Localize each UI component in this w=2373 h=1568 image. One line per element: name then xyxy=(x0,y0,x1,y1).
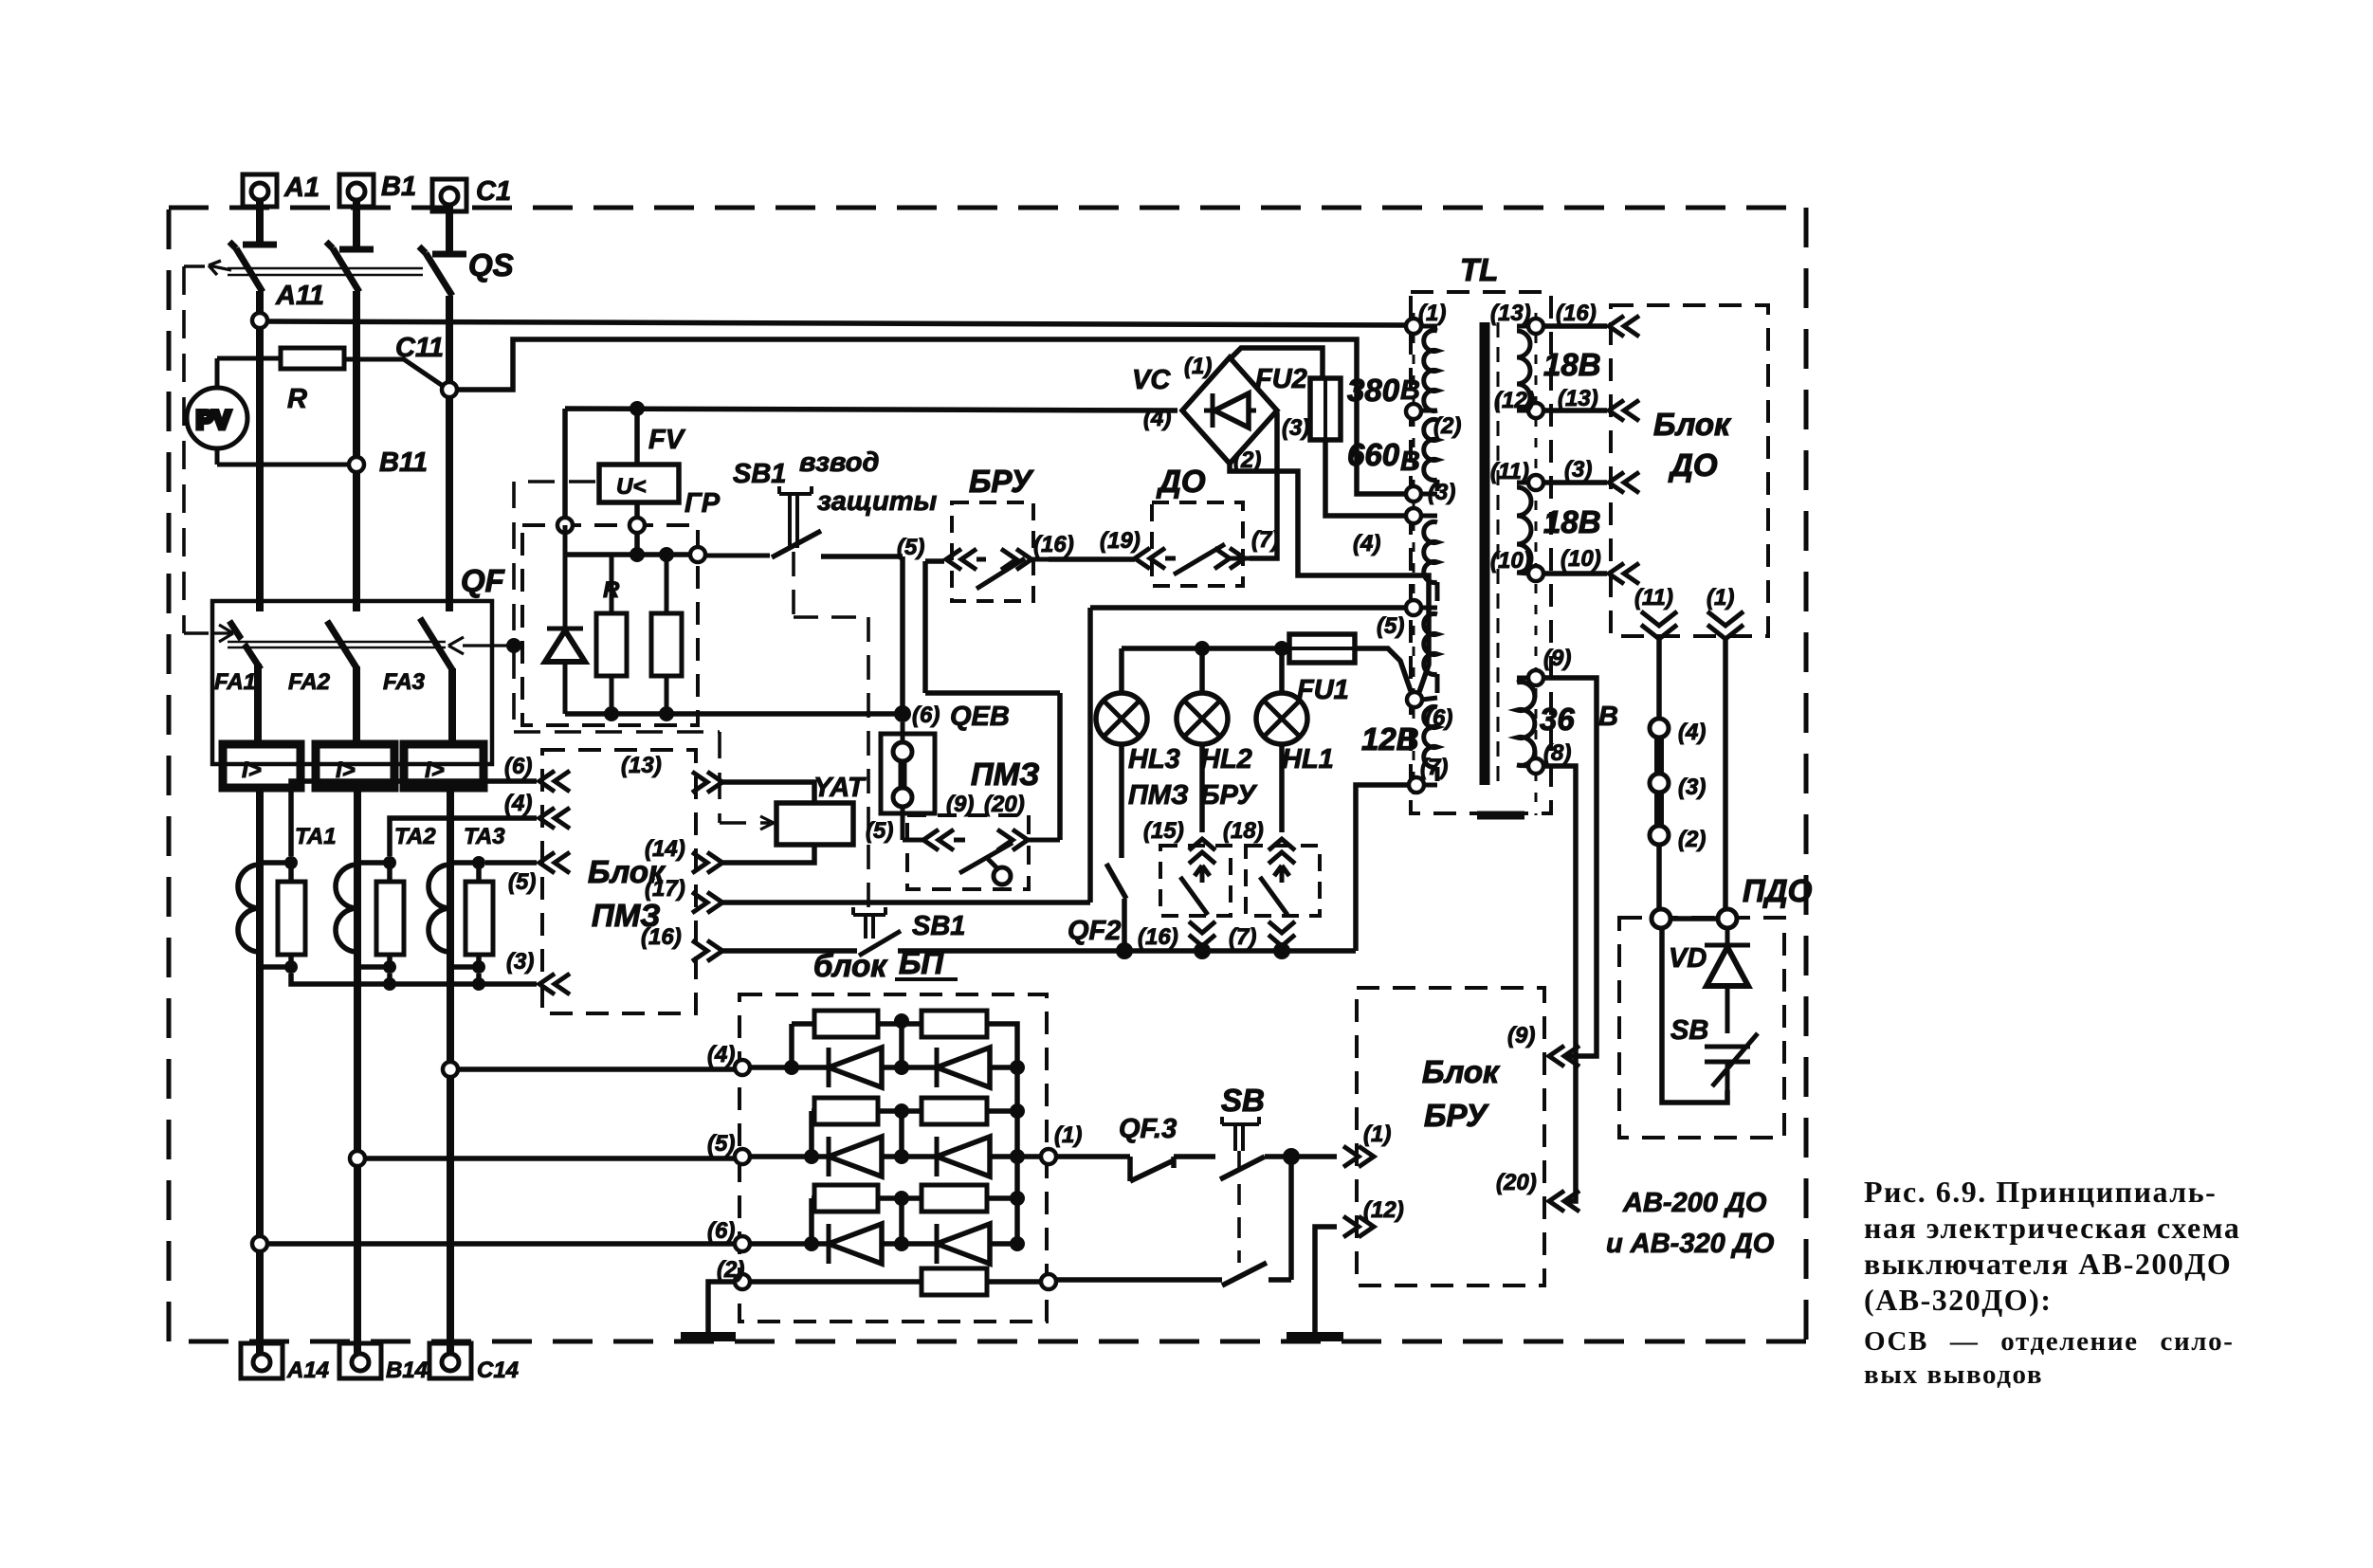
svg-text:(4): (4) xyxy=(1143,406,1171,431)
wire bridge(3) to DO contact xyxy=(1250,412,1277,558)
svg-text:(7): (7) xyxy=(1420,755,1448,780)
wire chain to PDO xyxy=(1656,845,1662,910)
svg-text:FA1: FA1 xyxy=(214,669,256,695)
svg-text:(5): (5) xyxy=(1377,613,1404,639)
wire FA2 blade to I> xyxy=(353,666,360,744)
wire FA1 blade to I> xyxy=(254,664,262,744)
svg-text:(6): (6) xyxy=(1425,705,1452,731)
wire BP (2) to ground xyxy=(708,1282,735,1335)
breaker aux contact QF.3 xyxy=(1056,1157,1215,1181)
svg-text:SB1: SB1 xyxy=(912,911,965,941)
TL secondary winding 18V (11)-(10) xyxy=(1517,483,1531,574)
block PMZ dashed box xyxy=(542,750,696,1013)
TL secondary winding 36V (9)-(8) xyxy=(1517,678,1535,766)
current transformer TA3 xyxy=(429,863,493,967)
terminal (9) TL xyxy=(1528,670,1543,685)
svg-text:(8): (8) xyxy=(1543,740,1571,766)
overcurrent release I> FA1 xyxy=(223,744,301,788)
wire PMZ contact (20) to BRU (5) xyxy=(925,561,1060,840)
node dots on GR bottom wire xyxy=(604,706,619,721)
terminal (10) TL xyxy=(1528,566,1543,581)
wire (13) to DO (16) xyxy=(1543,323,1607,329)
disconnector QS blade phase B xyxy=(326,242,359,292)
BP row3 diode b xyxy=(937,1224,1017,1264)
connector arrow (4) xyxy=(539,808,570,829)
svg-text:FU2: FU2 xyxy=(1255,364,1307,394)
connector arrow (11) down xyxy=(1641,611,1677,639)
lamp HL1 xyxy=(1256,648,1307,832)
svg-text:HL2: HL2 xyxy=(1200,744,1252,775)
svg-text:(16): (16) xyxy=(641,924,682,950)
terminal (4) TL xyxy=(1406,508,1421,523)
connector arrow (1) BRU xyxy=(1343,1146,1374,1167)
connector arrow (9) BRU xyxy=(1549,1046,1579,1067)
QF blade FA1 xyxy=(229,621,261,669)
connector bar 4-3 xyxy=(1654,738,1664,774)
terminal (6) TL xyxy=(1407,692,1422,707)
svg-text:БП: БП xyxy=(899,945,944,980)
svg-text:(15): (15) xyxy=(1143,818,1184,844)
wire ground to BRU (12) xyxy=(1315,1227,1337,1335)
connector arrow (10) DO xyxy=(1609,563,1639,584)
terminal A1 xyxy=(243,174,277,245)
svg-text:VD: VD xyxy=(1669,943,1707,974)
lamps supply bus from FU1 xyxy=(1122,648,1411,691)
terminal (2) TL xyxy=(1406,404,1421,419)
wire (17) to TL tap (5) xyxy=(722,608,1406,903)
svg-text:B14: B14 xyxy=(386,1358,428,1383)
svg-text:R: R xyxy=(603,577,620,603)
connector arrow (14) xyxy=(692,852,722,873)
svg-text:A1: A1 xyxy=(283,173,319,203)
svg-text:(2): (2) xyxy=(717,1257,744,1283)
wire (12) to DO (13) xyxy=(1543,408,1607,413)
svg-text:и АВ-320 ДО: и АВ-320 ДО xyxy=(1606,1229,1775,1259)
node C11 xyxy=(442,382,457,397)
svg-text:Блок: Блок xyxy=(1653,407,1732,442)
svg-text:(1): (1) xyxy=(1054,1122,1082,1148)
connector arrow (5) xyxy=(539,852,570,873)
SB lower contact xyxy=(1056,1263,1291,1285)
lamp HL3 xyxy=(1096,648,1147,858)
connector arrow (3) DO xyxy=(1609,472,1639,493)
svg-text:TA1: TA1 xyxy=(295,824,337,849)
wire bus A (QS to QF) xyxy=(256,291,264,611)
svg-text:ДО: ДО xyxy=(1668,447,1718,483)
svg-text:БРУ: БРУ xyxy=(969,464,1034,499)
svg-text:БРУ: БРУ xyxy=(1424,1098,1489,1133)
BP row1 right riser xyxy=(987,1024,1017,1067)
lamp HL2 xyxy=(1177,648,1228,832)
disconnector QS blade phase A xyxy=(229,242,263,292)
GR block dashed box xyxy=(522,525,698,725)
wire FA3 blade to I> xyxy=(448,668,456,744)
svg-text:(3): (3) xyxy=(1282,415,1309,441)
svg-text:(20): (20) xyxy=(984,792,1025,817)
common wire TA secondaries to PMZ (3) xyxy=(291,974,537,984)
svg-text:I>: I> xyxy=(242,757,262,783)
BP terminal (5) xyxy=(735,1149,750,1164)
diode VD in GR block xyxy=(545,525,585,714)
TL primary winding section 2-3 xyxy=(1421,419,1437,494)
wire TA2 secondary to PMZ (4) xyxy=(390,818,537,856)
contact box (15)-(16) dashed xyxy=(1160,846,1231,916)
svg-text:(9): (9) xyxy=(1507,1023,1535,1048)
svg-text:660: 660 xyxy=(1347,437,1400,472)
BP bottom row resistor xyxy=(750,1268,1041,1295)
wire (16) to bottom bus xyxy=(722,948,857,954)
disconnector QS blade phase C xyxy=(419,246,452,296)
svg-text:(1): (1) xyxy=(1184,354,1212,379)
pushbutton SB1 (upper contact) xyxy=(705,531,903,706)
svg-text:QF2: QF2 xyxy=(1068,916,1121,946)
trip coil YAT xyxy=(776,803,853,845)
svg-text:(4): (4) xyxy=(1678,720,1706,745)
svg-text:(10): (10) xyxy=(1561,546,1601,572)
ground symbol right xyxy=(1287,1332,1343,1341)
wire DO (11) down with connector chain xyxy=(1656,639,1662,719)
svg-text:ПМЗ: ПМЗ xyxy=(1128,780,1189,811)
svg-text:ПДО: ПДО xyxy=(1743,873,1813,908)
contact PMZ dashed box xyxy=(907,815,1029,889)
wire TA3 secondary to PMZ (5) xyxy=(485,860,537,866)
wire bus B below QF xyxy=(354,788,361,1356)
BP terminal (1) xyxy=(1041,1149,1056,1164)
svg-text:(13): (13) xyxy=(621,753,662,778)
QF trip linkage arrow (left) xyxy=(210,625,233,642)
node on bus C feeding BP (4) xyxy=(443,1062,458,1077)
svg-text:QF.3: QF.3 xyxy=(1119,1114,1177,1144)
FV mechanical linkage dashed to QF and YAT xyxy=(514,482,770,823)
GR internal top wire xyxy=(565,552,698,557)
terminal C14 xyxy=(429,1343,471,1378)
SB1 linkage dashed xyxy=(794,552,868,907)
undervoltage release FV (U<) xyxy=(599,409,679,555)
terminal (12) TL xyxy=(1528,403,1543,418)
terminal A14 xyxy=(241,1343,283,1378)
wire bus C below QF xyxy=(447,788,454,1356)
svg-text:БРУ: БРУ xyxy=(1200,780,1258,811)
SB1 plunger xyxy=(779,486,812,548)
TL bottom core bar xyxy=(1477,811,1524,820)
terminal B1 xyxy=(339,174,374,249)
overcurrent release I> FA2 xyxy=(316,744,394,788)
svg-text:PV: PV xyxy=(196,406,230,434)
wire A11 to TL terminal (1) xyxy=(267,321,1407,325)
svg-text:(7): (7) xyxy=(1229,924,1256,950)
svg-text:(4): (4) xyxy=(504,791,532,816)
svg-text:ГР: ГР xyxy=(685,488,721,519)
wire bridge(2) to TL (6) xyxy=(1230,464,1429,692)
TL secondary winding 18V (13)-(12) xyxy=(1517,326,1530,410)
contact DO arrows and blade xyxy=(1135,544,1250,574)
wire (9) to BRU (9) xyxy=(1543,678,1597,1056)
contact DO dashed box xyxy=(1152,502,1243,586)
svg-text:FA2: FA2 xyxy=(288,669,331,695)
pushbutton SB1 lower contact xyxy=(859,931,1124,956)
svg-text:взвод: взвод xyxy=(799,447,879,478)
svg-text:Рис. 6.9. Принципиаль-: Рис. 6.9. Принципиаль- xyxy=(1864,1175,2217,1209)
linkage arrowhead at YAT xyxy=(760,816,774,830)
wire bus B to BP terminal (5) xyxy=(365,1156,735,1161)
svg-text:(6): (6) xyxy=(707,1218,735,1244)
svg-text:C1: C1 xyxy=(476,176,511,207)
terminal (1) TL xyxy=(1406,319,1421,334)
svg-text:YAT: YAT xyxy=(813,773,867,803)
BP row3 resistor b xyxy=(922,1185,987,1212)
wire bridge DC(4) to FV/GR node xyxy=(565,409,1177,525)
svg-text:(5): (5) xyxy=(866,818,893,844)
svg-text:(16): (16) xyxy=(1138,924,1178,950)
svg-text:SB1: SB1 xyxy=(733,459,786,489)
svg-text:SB: SB xyxy=(1670,1015,1708,1046)
BP row3 mid junction xyxy=(899,1198,904,1244)
BP row1 mid junction xyxy=(899,1021,904,1067)
svg-text:FV: FV xyxy=(648,425,686,455)
svg-text:В: В xyxy=(1400,375,1420,406)
BP row2 diode a xyxy=(829,1137,937,1176)
contact (18)-(7) symbols xyxy=(1260,839,1295,946)
wire bus A below QF xyxy=(256,788,264,1356)
plug connector QCB xyxy=(881,722,935,840)
svg-text:(4): (4) xyxy=(707,1042,735,1067)
connector arrow (1) down xyxy=(1707,611,1743,639)
QF blade FA3 xyxy=(420,618,453,671)
svg-text:A14: A14 xyxy=(286,1358,329,1383)
svg-text:В: В xyxy=(1598,702,1618,732)
wire PDO top link xyxy=(1670,916,1718,921)
wire TA1 secondary to PMZ (6) xyxy=(291,781,537,856)
svg-text:(20): (20) xyxy=(1496,1170,1537,1195)
svg-text:(5): (5) xyxy=(508,869,536,895)
BP terminal (4) xyxy=(735,1060,750,1075)
wire lower contact up to node xyxy=(1288,1157,1294,1280)
connector arrow (20) BRU xyxy=(1549,1191,1579,1212)
diode VD in PDO xyxy=(1705,928,1750,1033)
connector arrow (6) xyxy=(539,771,570,792)
wire (13) to trip coil YAT xyxy=(722,782,814,803)
QS-QF mechanical linkage dashed line xyxy=(184,266,209,633)
pushbutton SB upper contact xyxy=(1220,1157,1337,1179)
connector circle (4) xyxy=(1650,719,1669,738)
connector arrow (3) xyxy=(539,974,570,994)
node dots on GR top wire xyxy=(630,547,645,562)
svg-text:(6): (6) xyxy=(504,754,532,779)
svg-text:(6): (6) xyxy=(912,702,940,728)
wire (8) to BRU (20) xyxy=(1543,766,1576,1201)
svg-text:ОСВ — отделение сило-: ОСВ — отделение сило- xyxy=(1864,1326,2235,1357)
breaker aux contact QF2 xyxy=(1106,864,1126,951)
terminal (8) TL xyxy=(1528,758,1543,774)
terminal (3) TL xyxy=(1406,486,1421,501)
rectifier bridge VC xyxy=(1182,357,1277,464)
QS linkage bar xyxy=(209,261,423,275)
svg-text:FA3: FA3 xyxy=(383,669,426,695)
SB linkage dashed xyxy=(1237,1151,1241,1263)
wire bus B (QS to QF) xyxy=(353,291,360,611)
svg-text:18В: 18В xyxy=(1543,347,1601,382)
wire (7) to bottom bus xyxy=(1356,785,1409,951)
BP row2 diode b xyxy=(937,1137,1041,1176)
PDO terminal circle left xyxy=(1652,909,1670,928)
bottom return bus segment xyxy=(1124,948,1356,954)
node dot before BRU (1) xyxy=(1283,1148,1300,1165)
fuse FU1 xyxy=(1289,634,1355,663)
connector arrow (13) DO xyxy=(1609,400,1639,421)
ground symbol left xyxy=(681,1332,736,1341)
svg-text:(12): (12) xyxy=(1363,1197,1404,1223)
terminal (13) TL xyxy=(1528,319,1543,334)
block DO dashed box xyxy=(1611,305,1768,636)
BP right bus xyxy=(1014,1067,1020,1244)
svg-text:(7): (7) xyxy=(1251,527,1279,553)
svg-text:(16): (16) xyxy=(1556,301,1597,326)
latch switch SB in PDO xyxy=(1705,1033,1758,1097)
svg-text:12В: 12В xyxy=(1361,721,1419,757)
svg-text:QЕВ: QЕВ xyxy=(950,702,1010,732)
wire bus C (QS to QF) xyxy=(446,296,453,611)
svg-text:HL3: HL3 xyxy=(1128,744,1180,775)
BP row2 resistor b xyxy=(922,1098,987,1124)
svg-text:(11): (11) xyxy=(1490,459,1529,484)
contact (15)-(16) symbols xyxy=(1180,839,1215,951)
wire bridge(1) to FU2 xyxy=(1230,348,1323,378)
fuse FU2 xyxy=(1310,378,1406,516)
svg-text:(19): (19) xyxy=(1100,528,1141,554)
contact BRU dashed box xyxy=(952,502,1033,601)
outer dashed border of switchgear enclosure xyxy=(169,208,1806,1341)
TL core dashed line xyxy=(1497,322,1500,785)
BP row1 resistor a xyxy=(750,1011,922,1067)
TL primary terminal dashed line xyxy=(1413,313,1415,794)
svg-text:(2): (2) xyxy=(1678,827,1706,852)
terminal C1 xyxy=(432,179,466,254)
BP terminal (2) xyxy=(735,1274,750,1289)
current transformer TA2 xyxy=(336,863,404,967)
GR bottom wire to node (6) xyxy=(565,711,903,717)
connector arrow (12) BRU xyxy=(1343,1216,1374,1237)
svg-text:B1: B1 xyxy=(381,172,416,202)
svg-text:TL: TL xyxy=(1460,252,1498,287)
svg-text:(3): (3) xyxy=(506,949,534,975)
svg-text:(10): (10) xyxy=(1490,548,1531,574)
svg-text:(5): (5) xyxy=(707,1131,735,1157)
svg-text:выключателя АВ-200ДО: выключателя АВ-200ДО xyxy=(1864,1247,2232,1281)
TL primary winding 12V section 6-7 xyxy=(1424,707,1437,786)
wire (11) to DO (3) xyxy=(1543,480,1607,485)
svg-text:(13): (13) xyxy=(1490,301,1531,326)
wire (7) right stub xyxy=(1424,783,1437,788)
svg-text:ДО: ДО xyxy=(1156,464,1206,499)
node dots on lamp bus xyxy=(1195,641,1210,656)
node on bus A feeding BP (6) xyxy=(252,1236,267,1251)
svg-text:VC: VC xyxy=(1132,365,1171,395)
connector arrow (17) xyxy=(692,892,722,913)
BP terminal (6) xyxy=(735,1236,750,1251)
BP row1 diode a xyxy=(829,1048,937,1087)
node (6) junction dot xyxy=(894,705,911,722)
wire DO (1) down to PDO xyxy=(1723,639,1728,910)
TL primary winding section 5-6 xyxy=(1422,614,1437,701)
svg-text:вых выводов: вых выводов xyxy=(1864,1359,2043,1390)
svg-text:(17): (17) xyxy=(645,876,685,902)
wire bus A to BP terminal (6) xyxy=(267,1241,735,1247)
connector circle (3) xyxy=(1650,774,1669,793)
wire YAT to (14) xyxy=(722,845,814,863)
svg-text:A11: A11 xyxy=(275,281,324,311)
svg-text:(14): (14) xyxy=(645,836,685,862)
svg-text:FU1: FU1 xyxy=(1297,675,1349,705)
BP row3 right riser xyxy=(987,1195,1017,1201)
svg-text:(11): (11) xyxy=(1634,585,1673,611)
svg-text:ная электрическая схема: ная электрическая схема xyxy=(1864,1211,2240,1245)
svg-text:SB: SB xyxy=(1221,1083,1265,1118)
svg-text:B11: B11 xyxy=(379,447,428,478)
svg-text:(12): (12) xyxy=(1494,388,1535,413)
transformer TL dashed box xyxy=(1411,292,1551,813)
resistor R2 in GR block xyxy=(651,555,682,714)
TL core bar xyxy=(1480,322,1490,785)
wire BRU (16) to DO (19) xyxy=(1049,556,1135,562)
terminal (11) TL xyxy=(1528,475,1543,490)
svg-text:C14: C14 xyxy=(477,1358,519,1383)
svg-text:TA2: TA2 xyxy=(394,824,436,849)
QF trip arrow (right side) xyxy=(448,637,512,654)
connector arrow (16) DO xyxy=(1609,316,1639,337)
svg-text:380: 380 xyxy=(1347,373,1400,408)
svg-text:(1): (1) xyxy=(1707,585,1734,611)
trip linkage junction dot xyxy=(506,638,521,653)
contact box (18)-(7) dashed xyxy=(1246,846,1320,916)
connector circle (2) xyxy=(1650,826,1669,845)
svg-text:блок: блок xyxy=(813,948,888,983)
svg-text:(9): (9) xyxy=(1543,646,1571,671)
svg-text:защиты: защиты xyxy=(817,486,938,517)
resistor R1 in GR block xyxy=(596,555,627,714)
BP row2 resistor a xyxy=(750,1098,922,1157)
svg-text:АВ-200 ДО: АВ-200 ДО xyxy=(1622,1188,1767,1218)
BP row3 resistor a xyxy=(750,1185,922,1244)
current transformer TA1 xyxy=(238,863,305,967)
BP bottom-right terminal circle xyxy=(1041,1274,1056,1289)
svg-text:(3): (3) xyxy=(1678,775,1706,800)
svg-text:(5): (5) xyxy=(897,535,924,560)
BP row1 diode b xyxy=(937,1048,1017,1087)
wire (10) to DO (10) xyxy=(1543,571,1607,576)
svg-text:(3): (3) xyxy=(1428,480,1455,505)
svg-text:(1): (1) xyxy=(1418,301,1446,326)
resistor R (voltmeter series) xyxy=(217,348,443,386)
svg-text:QF: QF xyxy=(461,563,505,598)
node A11 xyxy=(252,313,267,328)
BP row3 diode a xyxy=(829,1224,937,1264)
svg-text:18В: 18В xyxy=(1543,504,1601,539)
BP row1 resistor b xyxy=(922,1011,987,1037)
contact BRU arrows and blade xyxy=(946,549,1049,589)
QF linkage bar xyxy=(228,642,446,647)
svg-text:(АВ-320ДО):: (АВ-320ДО): xyxy=(1864,1283,2052,1317)
BP row2 mid junction xyxy=(899,1111,904,1157)
voltmeter PV xyxy=(187,358,349,465)
svg-text:Блок: Блок xyxy=(1422,1054,1501,1089)
PDO dashed box xyxy=(1619,918,1784,1138)
TL primary winding section 4-5 xyxy=(1421,516,1437,608)
svg-text:U<: U< xyxy=(616,474,646,500)
open circle node GR top mid xyxy=(630,518,645,533)
open circle node GR right xyxy=(690,547,705,562)
svg-text:(13): (13) xyxy=(1558,386,1598,411)
QF blade FA2 xyxy=(327,621,357,669)
